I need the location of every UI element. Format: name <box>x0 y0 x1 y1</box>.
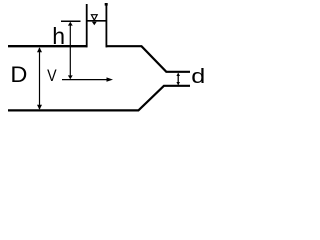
svg-text:D: D <box>10 62 27 87</box>
V arrowhead <box>107 77 114 81</box>
D dimension bottom arrowhead <box>37 105 42 110</box>
free surface symbol solid triangle below line <box>92 22 97 25</box>
standpipe left wall <box>86 4 88 47</box>
h dimension bottom arrowhead <box>68 75 73 79</box>
d dimension top arrowhead <box>176 73 180 76</box>
d dimension line <box>177 73 179 84</box>
pipe top wall right segment with nozzle slant and exit top <box>106 46 190 72</box>
pipe bottom wall with nozzle slant and exit bottom <box>8 86 190 111</box>
standpipe right wall top tick <box>105 3 108 6</box>
pipe top wall left segment <box>8 45 87 47</box>
free surface line in standpipe <box>87 20 106 22</box>
D dimension top arrowhead <box>37 47 42 52</box>
svg-text:d: d <box>191 66 205 88</box>
h dimension line <box>69 23 71 79</box>
h level reference line <box>61 20 81 22</box>
free surface symbol outlined nabla <box>91 15 97 20</box>
d dimension bottom arrowhead <box>176 82 180 85</box>
svg-text:V: V <box>47 66 57 85</box>
V velocity arrow <box>62 79 108 81</box>
svg-text:h: h <box>52 23 65 49</box>
D dimension line <box>39 48 41 109</box>
h dimension top arrowhead <box>68 22 73 26</box>
standpipe right wall <box>105 3 107 47</box>
